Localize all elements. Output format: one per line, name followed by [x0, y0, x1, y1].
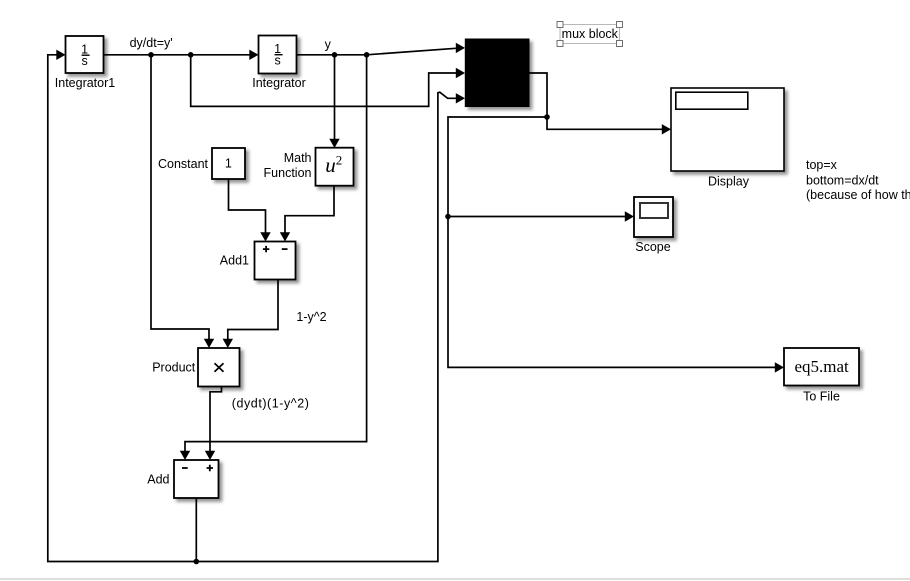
wire Math Function output into Add1 minus input	[285, 187, 334, 233]
svg-text:Constant: Constant	[158, 157, 209, 171]
product block Product	[152, 348, 239, 387]
bottom window separator line	[0, 578, 910, 580]
wire bottom feedback right and up into Mux input 3	[196, 92, 456, 561]
integrator block Integrator1	[55, 36, 116, 90]
junction node at mux output corner	[544, 114, 550, 120]
wire Integrator1 output to Integrator input (signal dy/dt=y')	[104, 54, 251, 56]
svg-text:1: 1	[225, 157, 232, 171]
junction node on y line (to Math Function)	[332, 52, 338, 58]
display block Display	[671, 88, 784, 189]
svg-text:y: y	[325, 37, 332, 51]
svg-text:mux block: mux block	[562, 27, 619, 41]
svg-text:u: u	[325, 153, 336, 177]
selected annotation label "mux block" with selection handles	[557, 22, 623, 47]
wire from node on y line down and left into Add minus input	[185, 55, 367, 451]
svg-text:Function: Function	[264, 166, 312, 180]
junction node on dy/dt line (to Product)	[148, 52, 154, 58]
svg-text:(because of how the: (because of how the	[806, 188, 910, 202]
junction node on bottom feedback line	[194, 559, 200, 565]
to-file block eq5.mat	[784, 348, 859, 403]
wire branch from trunk node right into Scope	[448, 216, 625, 218]
wire Integrator output (y) with diagonal into Mux input 1	[297, 48, 456, 55]
sum block Add1	[220, 242, 296, 280]
svg-text:s: s	[274, 54, 280, 68]
wire feedback from Add output along bottom and left into Integrator1	[48, 55, 197, 562]
wire from node on y line down into Math Function input	[334, 55, 336, 139]
svg-text:top=x: top=x	[806, 158, 838, 172]
scope block Scope	[634, 197, 673, 254]
annotation text top=x / bottom=dx/dt / (because of how the	[806, 158, 910, 202]
svg-text:Product: Product	[152, 361, 196, 375]
sum block Add	[147, 460, 218, 498]
wire Add1 output (1-y^2) into Product input 2	[228, 280, 278, 340]
svg-text:eq5.mat: eq5.mat	[794, 357, 849, 376]
junction node on trunk to Scope	[445, 214, 451, 220]
wire Add output down to bottom feedback node	[195, 499, 197, 562]
svg-text:s: s	[81, 54, 87, 68]
wire Constant output into Add1 plus input	[229, 180, 266, 233]
svg-text:2: 2	[336, 153, 343, 168]
integrator block Integrator	[252, 36, 306, 91]
svg-text:(dydt)(1-y^2): (dydt)(1-y^2)	[232, 397, 310, 411]
svg-text:To File: To File	[803, 389, 840, 403]
svg-text:Integrator1: Integrator1	[55, 76, 116, 90]
svg-text:Add: Add	[147, 472, 169, 486]
svg-text:bottom=dx/dt: bottom=dx/dt	[806, 173, 879, 187]
wire Mux output right then down to junction	[529, 73, 547, 117]
svg-text:1-y^2: 1-y^2	[296, 310, 326, 324]
junction node on y line (to Add)	[364, 52, 370, 58]
constant block Constant value 1	[158, 148, 245, 179]
svg-text:dy/dt=y': dy/dt=y'	[130, 36, 173, 50]
svg-text:Math: Math	[284, 151, 312, 165]
wire branch from junction down and right into Display	[547, 117, 662, 129]
mux block (black)	[465, 39, 529, 107]
svg-text:Display: Display	[708, 175, 750, 189]
wire from node on dy/dt line down, right, up into Mux input 2	[191, 55, 456, 107]
wire Product output (dydt)(1-y^2) into Add plus input	[210, 387, 222, 452]
svg-text:Integrator: Integrator	[252, 76, 306, 90]
wire from mux-output junction left and down trunk to To File	[448, 117, 775, 367]
wire from node on dy/dt line down to Product input 1	[151, 55, 209, 340]
svg-text:Scope: Scope	[635, 240, 670, 254]
math function block u^2	[264, 148, 354, 186]
junction node on dy/dt line (to Mux input 2)	[188, 52, 194, 58]
svg-text:Add1: Add1	[220, 254, 249, 268]
